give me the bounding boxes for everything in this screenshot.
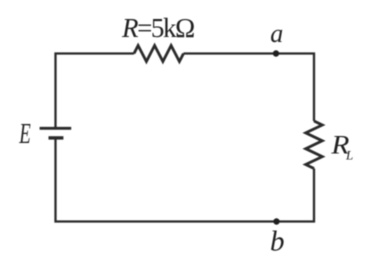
wire top-left + left down to battery top plate xyxy=(56,54,135,128)
svg-text:b: b xyxy=(270,226,285,258)
wire top-right: from resistor R to corner and down to RL top xyxy=(184,54,315,122)
svg-text:R=5kΩ: R=5kΩ xyxy=(121,13,194,43)
resistor RL zigzag xyxy=(306,121,323,169)
svg-text:L: L xyxy=(345,147,353,162)
node a dot xyxy=(273,50,279,56)
battery E bottom short plate xyxy=(49,136,64,139)
svg-text:E: E xyxy=(19,119,31,150)
resistor R1 R=5kOhm zigzag xyxy=(134,46,184,62)
svg-text:a: a xyxy=(270,19,283,48)
battery E top long plate xyxy=(40,127,72,130)
node b dot xyxy=(273,218,279,224)
wire bottom-left from battery bottom plate, bottom, right up to RL xyxy=(56,139,315,222)
